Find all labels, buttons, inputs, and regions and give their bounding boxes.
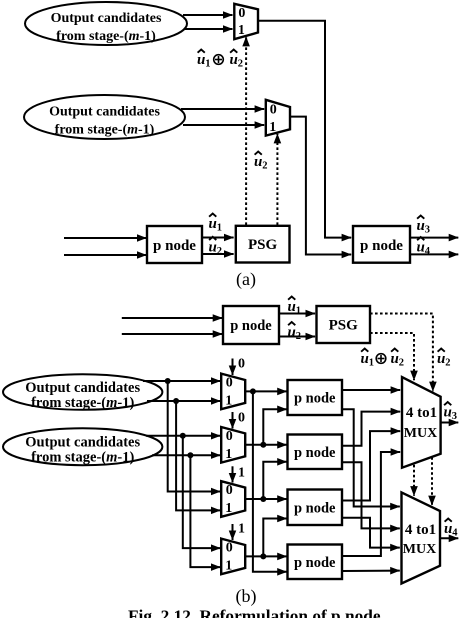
svg-text:u: u	[437, 351, 445, 367]
wire ellipse B2 line a to mux S2 input 0 with branch to mux S4	[146, 433, 220, 548]
svg-text:0: 0	[238, 6, 245, 21]
svg-text:u: u	[288, 325, 296, 341]
svg-text:0: 0	[226, 376, 233, 391]
svg-text:1: 1	[225, 394, 232, 409]
svg-text:1: 1	[238, 466, 245, 481]
wire ellipse B2 line b to mux S2 input 1 with branch to mux S4	[152, 452, 220, 567]
wire u3 output arrow (a)	[410, 237, 458, 239]
label u1 (b)	[288, 297, 301, 317]
wire P1 lower output to MUX B input 1	[342, 409, 400, 506]
svg-text:u: u	[230, 52, 238, 68]
dashed wire PSG output u1 xor u2 up to mux M1 select	[245, 37, 247, 225]
wire mux S1 output to p node P1 upper input, branch down to p node P4 lower input	[245, 388, 287, 571]
wire P4 lower output to MUX B input 4	[342, 570, 400, 572]
wire ellipse A1 to mux M1 input 0	[183, 14, 233, 16]
PSG block (b)	[317, 306, 371, 343]
4-to-1 MUX A (b upper)	[402, 377, 441, 468]
svg-text:1: 1	[225, 447, 232, 462]
p node U1 (a left)	[147, 226, 202, 263]
svg-text:1: 1	[217, 223, 222, 234]
p node U3 (b top)	[223, 306, 279, 344]
svg-text:2: 2	[238, 59, 243, 70]
svg-text:u: u	[209, 216, 217, 232]
svg-text:u: u	[444, 405, 452, 421]
label u1 xor u2 (b)	[361, 349, 404, 369]
dashed wire PSG to 4to1 MUX select u1 xor u2 (b)	[370, 333, 414, 380]
svg-text:1: 1	[238, 522, 245, 537]
wire input 2 into p node (b top)	[122, 333, 223, 335]
wire u4 output arrow (a)	[410, 253, 458, 255]
svg-text:1: 1	[225, 501, 232, 516]
svg-text:0: 0	[226, 541, 233, 556]
svg-text:PSG: PSG	[248, 237, 278, 253]
dashed wire select u1 xor u2 from MUX A to MUX B	[413, 465, 415, 496]
svg-text:u: u	[209, 239, 217, 255]
svg-text:u: u	[391, 351, 399, 367]
label u3 output (b)	[444, 402, 457, 422]
wire p node u1 to PSG (b)	[279, 313, 315, 315]
ellipse "Output candidates from stage-(m-1)" (a) lower	[24, 95, 185, 139]
svg-text:2: 2	[262, 161, 267, 172]
mux S1 (2-to-1) part (b)	[221, 374, 245, 410]
select constant 0 into mux S1	[233, 357, 246, 376]
wire mux S2 output to p node P2 upper input, branch up to p node P1 lower input	[245, 409, 287, 448]
wire P2 lower output to MUX B input 2	[342, 462, 400, 528]
wire u3 output (b)	[441, 422, 459, 424]
wire P4 upper output to MUX A input 4	[342, 452, 400, 556]
label u2 (a)	[209, 237, 222, 257]
svg-text:4 to1: 4 to1	[405, 522, 436, 538]
ellipse "Output candidates from stage-(m-1)" (a) upper	[25, 2, 187, 45]
mux S4 (2-to-1) part (b)	[221, 539, 245, 575]
wire ellipse A2 to mux M2 input 0	[181, 108, 264, 110]
mux M1 (2-to-1) part (a)	[234, 4, 258, 39]
wire p node u2 to PSG (b)	[279, 336, 315, 338]
mux S3 (2-to-1) part (b)	[221, 481, 245, 517]
wire ellipse A2 to mux M2 input 1	[183, 124, 264, 126]
wire mux S4 output to p node P4 upper input, branch up to p node P3 lower input	[245, 519, 287, 560]
svg-text:1: 1	[225, 559, 232, 574]
label u2 select (b)	[437, 349, 450, 369]
svg-text:2: 2	[217, 246, 222, 257]
label u1 (a)	[209, 214, 222, 234]
wire u4 output (b)	[440, 537, 458, 539]
svg-text:p node: p node	[230, 318, 272, 334]
svg-text:p node: p node	[294, 501, 336, 517]
svg-text:3: 3	[452, 411, 457, 422]
select constant 1 into mux S3	[233, 466, 246, 483]
figure caption Fig. 2.12	[128, 607, 381, 618]
wire ellipse B1 line a to mux S1 input 0 with branch to mux S3	[143, 378, 220, 492]
select constant 1 into mux S4	[233, 522, 246, 541]
svg-text:u: u	[197, 52, 205, 68]
label u3 output (a)	[417, 216, 430, 236]
svg-text:4 to1: 4 to1	[406, 405, 437, 421]
wire input 1 into left p node (a)	[64, 237, 146, 239]
svg-text:4: 4	[452, 528, 458, 539]
label u4 output (a)	[417, 237, 431, 257]
wire ellipse A1 to mux M1 input 1	[185, 28, 233, 30]
svg-text:from stage-(m-1): from stage-(m-1)	[56, 29, 156, 44]
wire mux S3 output to p node P3 upper input, branch up to p node P2 lower input	[245, 462, 287, 502]
svg-text:1: 1	[238, 23, 245, 38]
p node U2 (a right)	[353, 226, 410, 263]
ellipse "Output candidates from stage-(m-1)" (b) lower	[3, 428, 162, 466]
svg-text:u: u	[417, 240, 425, 256]
svg-text:u: u	[361, 351, 369, 367]
label u1 xor u2 select signal (a)	[197, 50, 243, 70]
select constant 0 into mux S2	[233, 411, 246, 429]
svg-text:from stage-(m-1): from stage-(m-1)	[31, 395, 134, 411]
wire p node u1 output to PSG (a)	[202, 237, 234, 239]
label u2 select signal (a)	[254, 152, 267, 172]
wire p node u2 output to PSG (a)	[202, 253, 234, 255]
caption (a)	[236, 269, 256, 290]
svg-text:(b): (b)	[236, 586, 257, 607]
svg-text:2: 2	[445, 358, 450, 369]
svg-text:u: u	[254, 154, 262, 170]
dashed wire PSG to 4to1 MUX select u2 (b)	[370, 314, 433, 392]
wire ellipse B1 line b to mux S1 input 1 with branch to mux S3	[147, 398, 220, 510]
svg-text:0: 0	[226, 483, 233, 498]
caption (b)	[236, 586, 257, 607]
label u2 (b)	[288, 322, 301, 342]
svg-text:1: 1	[205, 59, 210, 70]
svg-text:from stage-(m-1): from stage-(m-1)	[31, 450, 134, 466]
svg-text:u: u	[444, 521, 452, 537]
wire mux M2 output to right p node lower input	[290, 117, 351, 255]
mux M2 (2-to-1) part (a)	[266, 100, 290, 136]
PSG block (a)	[236, 226, 290, 263]
svg-text:PSG: PSG	[329, 318, 359, 334]
wire P2 upper output to MUX A input 2	[342, 412, 400, 446]
svg-text:p node: p node	[360, 238, 403, 254]
wire P3 upper output to MUX A input 3	[342, 431, 400, 500]
svg-text:(a): (a)	[236, 269, 256, 290]
wire input 2 into left p node (a)	[64, 254, 146, 256]
svg-text:Output candidates: Output candidates	[49, 104, 160, 119]
ellipse "Output candidates from stage-(m-1)" (b) upper	[3, 374, 162, 411]
svg-text:p node: p node	[294, 445, 336, 461]
svg-text:Fig. 2.12. Reformulation of p: Fig. 2.12. Reformulation of p node	[128, 607, 381, 618]
p node P4 (b)	[288, 545, 343, 580]
svg-text:p node: p node	[294, 391, 336, 407]
svg-text:2: 2	[399, 358, 404, 369]
p node P1 (b)	[288, 380, 343, 415]
svg-text:Output candidates: Output candidates	[51, 11, 162, 26]
svg-text:0: 0	[238, 357, 245, 372]
svg-text:0: 0	[226, 429, 233, 444]
dashed wire PSG output u2 up to mux M2 select	[276, 134, 278, 225]
4-to-1 MUX B (b lower)	[402, 492, 441, 583]
svg-text:p node: p node	[153, 238, 196, 254]
dashed wire select u2 from MUX A to MUX B	[431, 457, 433, 505]
svg-text:from stage-(m-1): from stage-(m-1)	[55, 122, 155, 137]
svg-text:0: 0	[238, 411, 245, 426]
svg-text:p node: p node	[294, 555, 336, 571]
svg-text:1: 1	[369, 358, 374, 369]
mux S2 (2-to-1) part (b)	[221, 427, 245, 463]
wire input 1 into p node (b top)	[122, 317, 223, 319]
svg-text:u: u	[417, 218, 425, 234]
svg-text:Output candidates: Output candidates	[25, 380, 140, 396]
wire mux M1 output to right p node upper input	[258, 21, 351, 238]
svg-text:1: 1	[269, 120, 276, 135]
svg-text:0: 0	[270, 103, 277, 118]
wire P1 upper output to MUX A input 1	[342, 389, 400, 391]
svg-text:Output candidates: Output candidates	[25, 435, 140, 451]
p node P3 (b)	[288, 490, 343, 526]
wire P3 lower output to MUX B input 3	[342, 518, 400, 548]
svg-text:3: 3	[425, 225, 430, 236]
svg-text:MUX: MUX	[403, 542, 436, 557]
label u4 output (b)	[444, 519, 458, 539]
p node P2 (b)	[288, 435, 343, 470]
svg-text:MUX: MUX	[404, 426, 437, 441]
svg-text:1: 1	[296, 306, 301, 317]
